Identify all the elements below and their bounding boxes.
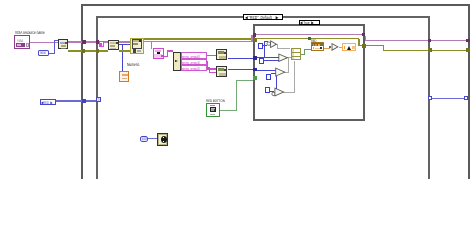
wire olive error seg1 (68, 50, 107, 52)
enum constant *RED (40, 99, 56, 105)
blue const1 (258, 43, 263, 49)
wire blue between icon1 icon2 (119, 44, 131, 45)
blue const2 (259, 58, 263, 64)
wire magenta prop node out (164, 56, 167, 57)
wire branch vertical x264.6 (264, 41, 265, 58)
comparator2 triangle (279, 54, 288, 61)
wire purple jog down right (365, 36, 367, 41)
wire comp2 out (287, 57, 291, 58)
purple dot on case1 right edge (428, 39, 432, 43)
Numeric indicator (119, 71, 129, 82)
comparator4 (triangle + circle) (272, 88, 284, 96)
wire purple drop to property node (151, 42, 153, 49)
olive dot on case1 right edge (428, 48, 432, 52)
wire purple seg5 inside case2 (256, 34, 363, 36)
VISA resource name control (14, 35, 30, 48)
wire blue drop to Numeric (122, 45, 123, 71)
wire pink row1 to iconA (207, 55, 217, 56)
icon B (Decimal String To Number) (216, 66, 227, 77)
RED label small (311, 39, 316, 43)
index array node column (173, 52, 181, 70)
RED BOTTON boolean control (206, 103, 220, 117)
blue wire right bottom (enum passthrough) (431, 98, 463, 99)
case structure C2 (True) border (253, 24, 365, 121)
blue const4 (265, 87, 270, 93)
pink row string_array[0] (181, 52, 207, 58)
wire const4 to comp4 (270, 91, 274, 92)
case selector label "True" (299, 20, 320, 25)
VISA property node (Bytes at Port) (153, 48, 165, 59)
wire 9600 to VI (49, 53, 55, 54)
comparator glyphs svg overlay (0, 0, 474, 179)
wire drop to comp4 (276, 70, 277, 89)
wire const1 to comp1 (263, 45, 267, 46)
VI icon2 (VISA Read, bordered) (130, 38, 143, 54)
case2 selector terminal (green) (253, 76, 257, 80)
pink row string_array[1] (181, 59, 207, 65)
case1 selector terminal (96, 97, 101, 103)
while loop W1 border (81, 4, 470, 189)
case selector label "RED Default" (243, 14, 283, 20)
tunnel blue case2 (upper) (253, 56, 257, 60)
Numeric label (127, 62, 139, 67)
wire olive seg6 to loop edge (383, 50, 469, 52)
hollow tunnel on loop right (464, 96, 468, 100)
RED BOTTON label (206, 98, 225, 103)
wait const 100 (140, 136, 148, 142)
VI icon1 (VISA Write) (108, 40, 119, 50)
tunnel purple on case1 border (96, 40, 100, 44)
orange box node (342, 43, 357, 50)
wire const2 to comp2 (264, 60, 279, 61)
wire purple jog up at case2 (251, 35, 253, 42)
wire pink row2 down to iconB (207, 61, 208, 69)
wire tunnel1 to comp2 (257, 57, 279, 58)
olive junction dot (308, 37, 311, 40)
wire purple seg3 between icons (119, 41, 131, 43)
blue const3 (266, 74, 271, 80)
tunnel purple on loop border (82, 40, 86, 44)
tunnel olive on loop border (82, 49, 86, 53)
olive dot on loop right edge (466, 48, 470, 52)
purple dot on loop right edge (466, 39, 470, 43)
wire olive seg3 (icon2 to case2) (144, 38, 252, 40)
tunnel olive on case1 border (96, 49, 100, 53)
tunnel purple case2 right (362, 33, 366, 37)
wire green button (220, 110, 237, 111)
wire olive jog down (383, 45, 385, 51)
index array node2 (orange) (311, 42, 324, 51)
small magenta box node right of case1 border (99, 41, 104, 47)
pink row string_array[2] (181, 65, 207, 71)
wire purple seg6 to loop edge (365, 40, 469, 42)
wire purple VISA seg2 (to case1) (68, 41, 107, 43)
icon A (Decimal String To Number) (216, 49, 227, 59)
comparator5 triangle (332, 44, 338, 51)
wire olive seg5 (366, 45, 384, 47)
case structure C1 (RED,Default) border (96, 16, 430, 189)
wire comp5 to orange box (339, 47, 343, 48)
wire olive seg4 inside case2 (256, 38, 359, 40)
olive jog down inside case2 right (358, 39, 360, 46)
VI icon: VISA Configure Serial Port (58, 39, 68, 49)
wire comp1 out (276, 44, 278, 45)
tunnel olive case2 right (362, 44, 366, 48)
wire purple VISA seg1 (30, 42, 58, 44)
wire const3 to comp3 (271, 73, 276, 74)
build array node (291, 48, 301, 60)
wait (ms) icon (157, 133, 168, 146)
wire blue iconA to tunnel (228, 58, 254, 59)
comparator3 triangle (276, 68, 285, 76)
wire comp3 out up to build array (284, 72, 288, 73)
wire comp4 out (283, 92, 294, 93)
tunnel olive case2 left (253, 38, 257, 42)
tunnel purple case2 left (253, 33, 257, 37)
wire olive seg2 between icons (119, 50, 131, 52)
comp5 small square (329, 46, 331, 48)
numeric constant 9600 (38, 50, 48, 56)
wire pink row3 stub (207, 67, 210, 68)
hollow tunnel on case1 right (428, 96, 432, 100)
VISA resource name label (15, 30, 45, 35)
comparator1 (circle + triangle) (267, 41, 276, 48)
wire blue wait (148, 138, 157, 139)
wire node2 to comp5 (324, 48, 329, 49)
wire tunnel2 to comp3 (257, 70, 276, 71)
tunnel blue case2 (lower) (253, 68, 257, 72)
wire purple seg4 (icon2 to case2) (144, 41, 253, 43)
wire blue iconB to tunnel (228, 69, 254, 70)
tunnel enum on loop border (82, 99, 86, 103)
wire enum to selector (56, 100, 96, 102)
wire build array out (301, 54, 305, 55)
